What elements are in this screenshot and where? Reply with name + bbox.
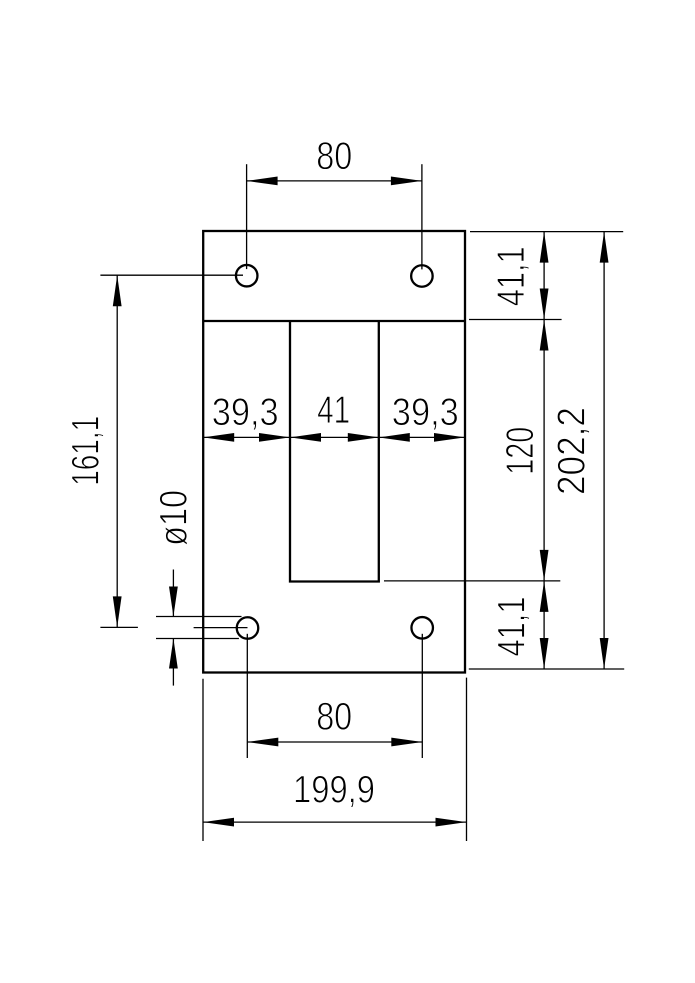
- svg-text:202,2: 202,2: [551, 407, 594, 495]
- divider line: [203, 320, 465, 322]
- right extension line bottom: [469, 668, 624, 670]
- top dim 80: extension lines: [246, 164, 248, 269]
- svg-text:41,1: 41,1: [491, 597, 534, 657]
- bottom dim 199,9 line: [203, 821, 467, 823]
- right dim line 2 (202,2): [603, 232, 605, 669]
- phi10 center line: [194, 627, 248, 629]
- plate outline: [203, 231, 465, 673]
- hole top-left: [236, 265, 258, 287]
- svg-text:39,3: 39,3: [212, 391, 279, 434]
- phi10 tangent line top: [156, 616, 242, 618]
- right dim line 1 (41,1 / 120 / 41,1): [543, 232, 545, 669]
- plate bottom extension line right: [466, 678, 468, 841]
- svg-text:41,1: 41,1: [490, 246, 533, 306]
- right extension line top: [470, 231, 623, 233]
- svg-text:161,1: 161,1: [64, 416, 107, 486]
- svg-text:199,9: 199,9: [293, 768, 375, 811]
- hole top-right: [411, 265, 433, 287]
- phi10 dim line lower segment: [172, 639, 174, 686]
- top dim 80: dimension line: [247, 180, 422, 182]
- svg-text:41: 41: [317, 389, 350, 432]
- middle dim line 39,3 / 41 / 39,3: [203, 436, 465, 438]
- bottom dim 80 line: [247, 741, 422, 743]
- hole bottom-right: [411, 617, 433, 639]
- dim 161,1 terminator bar: [100, 626, 137, 628]
- phi10 tangent line bottom: [156, 638, 239, 640]
- phi10 dim line upper segment: [172, 570, 174, 617]
- dim 161,1 line: [116, 275, 118, 627]
- right extension line at divider: [469, 319, 562, 321]
- svg-text:80: 80: [316, 696, 352, 739]
- svg-text:ø10: ø10: [153, 490, 196, 546]
- right extension line at slot bottom: [384, 580, 560, 582]
- slot (U cutout): [290, 321, 379, 582]
- bottom hole extension line right: [421, 634, 423, 758]
- svg-text:120: 120: [499, 427, 542, 475]
- svg-text:80: 80: [316, 135, 352, 178]
- svg-text:39,3: 39,3: [392, 391, 459, 434]
- plate bottom extension line left: [202, 679, 204, 841]
- left horizontal line to top hole: [100, 274, 243, 276]
- bottom hole extension line left: [246, 634, 248, 758]
- hole bottom-left: [237, 617, 259, 639]
